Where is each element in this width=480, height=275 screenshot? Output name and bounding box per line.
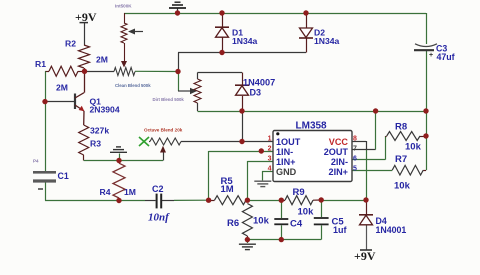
svg-text:4: 4 (268, 166, 272, 173)
svg-text:+: + (429, 52, 433, 59)
svg-text:1N34a: 1N34a (314, 36, 340, 46)
svg-text:R3: R3 (90, 139, 101, 149)
svg-text:2: 2 (268, 146, 272, 153)
svg-text:C4: C4 (290, 219, 303, 230)
svg-text:1M: 1M (221, 184, 234, 195)
svg-text:D3: D3 (250, 88, 262, 98)
svg-text:R4: R4 (100, 187, 111, 197)
svg-text:6: 6 (353, 156, 357, 163)
svg-text:1N34a: 1N34a (232, 36, 258, 46)
svg-text:1uf: 1uf (333, 225, 348, 235)
svg-text:10nf: 10nf (148, 212, 170, 224)
svg-text:R1: R1 (35, 59, 46, 69)
svg-text:10k: 10k (298, 207, 315, 218)
svg-text:5: 5 (353, 166, 357, 173)
svg-text:R6: R6 (227, 218, 239, 229)
svg-text:1IN+: 1IN+ (276, 157, 295, 167)
svg-text:Clean Blend 500k: Clean Blend 500k (115, 83, 151, 88)
svg-text:3: 3 (268, 156, 272, 163)
svg-text:C1: C1 (58, 171, 69, 181)
svg-text:10k: 10k (394, 181, 411, 192)
svg-text:2OUT: 2OUT (324, 147, 349, 157)
svg-text:Octave Blend 20k: Octave Blend 20k (144, 128, 183, 133)
svg-text:C2: C2 (152, 184, 164, 194)
svg-text:R7: R7 (395, 154, 407, 165)
svg-text:R2: R2 (65, 39, 76, 49)
svg-text:R8: R8 (395, 122, 407, 133)
svg-text:327k: 327k (90, 126, 109, 136)
svg-text:47uf: 47uf (437, 52, 455, 62)
svg-text:Dirt Blend 500k: Dirt Blend 500k (153, 97, 185, 102)
svg-text:10k: 10k (253, 216, 270, 227)
svg-text:VCC: VCC (329, 137, 349, 147)
svg-text:1: 1 (268, 136, 272, 143)
svg-text:R9: R9 (293, 187, 305, 198)
svg-text:+9V: +9V (354, 249, 376, 263)
svg-text:Int500K: Int500K (115, 3, 132, 8)
svg-text:P4: P4 (33, 159, 39, 164)
svg-text:10k: 10k (405, 142, 422, 153)
svg-text:1M: 1M (124, 187, 136, 197)
svg-text:1OUT: 1OUT (276, 137, 301, 147)
svg-text:GND: GND (276, 167, 297, 177)
svg-text:1IN-: 1IN- (276, 147, 293, 157)
svg-text:2M: 2M (56, 83, 68, 93)
svg-text:LM358: LM358 (296, 121, 328, 132)
svg-text:1N4001: 1N4001 (376, 225, 407, 235)
svg-text:2M: 2M (96, 55, 108, 65)
svg-text:7: 7 (353, 146, 357, 153)
svg-text:2N3904: 2N3904 (90, 105, 120, 115)
svg-text:2IN+: 2IN+ (329, 167, 348, 177)
svg-text:8: 8 (353, 136, 357, 143)
svg-text:2IN-: 2IN- (331, 157, 348, 167)
svg-text:1N4007: 1N4007 (243, 78, 275, 88)
